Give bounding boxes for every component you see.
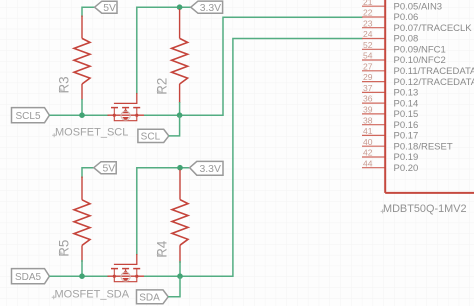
svg-text:SDA: SDA	[139, 292, 160, 303]
resistor R4	[172, 170, 188, 264]
wire 3.3V bottom rail to gate	[137, 168, 190, 255]
svg-text:R5: R5	[56, 240, 71, 257]
pin 21 P0.05/AIN3	[362, 0, 442, 12]
pin 42 P0.19	[362, 148, 418, 164]
svg-text:3.3V: 3.3V	[200, 3, 221, 14]
resistor R3	[74, 16, 90, 101]
svg-text:P0.05/AIN3: P0.05/AIN3	[394, 1, 443, 12]
net label SCL	[138, 129, 169, 142]
svg-text:27: 27	[363, 61, 373, 71]
svg-text:P0.15: P0.15	[394, 109, 419, 120]
net label SDA	[137, 290, 169, 304]
svg-text:37: 37	[363, 83, 373, 93]
svg-text:21: 21	[363, 0, 373, 7]
origin cross MDBT50Q	[381, 209, 385, 213]
pin 37 P0.13	[362, 83, 418, 99]
svg-text:P0.19: P0.19	[394, 152, 419, 163]
node junction 3.3V/R2	[177, 4, 183, 10]
svg-text:38: 38	[363, 115, 373, 125]
svg-text:23: 23	[363, 18, 373, 28]
svg-text:P0.09/NFC1: P0.09/NFC1	[394, 45, 446, 56]
wire MOSFET_SCL drain to junction and pin P0.06 riser	[144, 17, 363, 115]
wire R4 bottom to SDA junction	[179, 261, 181, 276]
wire R2 bottom to SCL junction	[179, 102, 181, 115]
wire MOSFET_SDA drain to junction and pin P0.08 riser	[144, 39, 363, 277]
svg-text:22: 22	[363, 8, 373, 18]
pin 39 P0.15	[362, 105, 418, 121]
pin 29 P0.12/TRACEDATA1	[362, 72, 474, 88]
svg-text:24: 24	[363, 29, 373, 39]
svg-text:P0.20: P0.20	[394, 163, 419, 174]
svg-text:SCL: SCL	[141, 131, 161, 142]
pin 24 P0.08	[362, 29, 418, 45]
wire SCL label to junction	[169, 115, 180, 136]
net label SCL5	[12, 108, 50, 123]
svg-text:P0.17: P0.17	[394, 131, 419, 142]
svg-text:39: 39	[363, 105, 373, 115]
svg-text:SDA5: SDA5	[15, 272, 42, 283]
svg-text:R4: R4	[155, 240, 170, 258]
svg-text:P0.06: P0.06	[394, 12, 419, 23]
wire 3.3V top rail to gate	[137, 7, 191, 94]
origin cross MOSFET_SCL	[52, 133, 56, 137]
origin cross MOSFET_SDA	[52, 295, 56, 299]
wire R3 bottom to SCL5 net	[81, 99, 83, 115]
svg-text:54: 54	[363, 51, 373, 61]
svg-text:P0.07/TRACECLK: P0.07/TRACECLK	[394, 23, 473, 34]
svg-text:3.3V: 3.3V	[200, 164, 221, 175]
pin 22 P0.06	[362, 8, 418, 24]
wire SDA label to junction	[168, 276, 180, 297]
svg-text:MDBT50Q-1MV2: MDBT50Q-1MV2	[383, 203, 467, 215]
origin cross R3	[59, 88, 63, 92]
pin 38 P0.16	[362, 115, 418, 131]
pin 44 P0.20	[362, 158, 418, 174]
node junction SDA	[177, 273, 183, 279]
svg-text:R2: R2	[155, 78, 170, 95]
svg-text:P0.14: P0.14	[394, 98, 419, 109]
wire 5V to R5 top	[82, 168, 94, 178]
pin 54 P0.10/NFC2	[362, 51, 446, 67]
transistor MOSFET_SDA	[108, 254, 145, 282]
supply flag 3.3V (top)	[191, 1, 223, 14]
svg-text:5V: 5V	[103, 3, 116, 14]
pin 23 P0.07/TRACECLK	[362, 18, 472, 34]
svg-text:P0.10/NFC2: P0.10/NFC2	[394, 55, 446, 66]
origin cross R4	[157, 253, 161, 257]
svg-text:SCL5: SCL5	[15, 111, 40, 122]
supply flag 5V (top)	[95, 1, 117, 14]
svg-text:36: 36	[363, 94, 373, 104]
wire SCL5 row	[49, 114, 108, 116]
origin cross R2	[157, 90, 161, 94]
svg-text:42: 42	[363, 148, 373, 158]
svg-text:44: 44	[363, 158, 373, 168]
svg-text:P0.18/RESET: P0.18/RESET	[394, 141, 453, 152]
wire 5V to R3 top	[82, 7, 95, 17]
supply flag 5V (bottom)	[94, 162, 116, 175]
pin 27 P0.11/TRACEDATA0	[362, 61, 474, 77]
svg-text:R3: R3	[56, 76, 71, 93]
svg-text:P0.13: P0.13	[394, 88, 419, 99]
svg-text:MOSFET_SCL: MOSFET_SCL	[55, 127, 128, 139]
transistor MOSFET_SCL	[108, 93, 145, 121]
svg-text:P0.12/TRACEDATA1: P0.12/TRACEDATA1	[394, 77, 474, 88]
pin 40 P0.18/RESET	[362, 137, 453, 153]
wire SDA5 row	[49, 275, 108, 277]
resistor R5	[74, 177, 90, 263]
pin 52 P0.09/NFC1	[362, 40, 446, 56]
pin 41 P0.17	[362, 126, 418, 142]
svg-text:P0.08: P0.08	[394, 34, 419, 45]
wire R5 bottom to SDA5 net	[81, 260, 83, 276]
op-amp U1 module MDBT50Q-1MV2 body edge	[385, 0, 474, 193]
resistor R2	[172, 9, 188, 103]
svg-text:52: 52	[363, 40, 373, 50]
pin 36 P0.14	[362, 94, 418, 110]
svg-text:P0.11/TRACEDATA0: P0.11/TRACEDATA0	[394, 66, 474, 77]
origin cross R5	[59, 251, 63, 255]
node junction R5/SDA5	[79, 273, 85, 279]
svg-text:5V: 5V	[102, 164, 115, 175]
svg-text:41: 41	[363, 126, 373, 136]
svg-text:29: 29	[363, 72, 373, 82]
node junction SCL	[177, 112, 183, 118]
node junction 3.3V/R4	[177, 165, 183, 171]
supply flag 3.3V (bottom)	[190, 161, 223, 175]
net label SDA5	[12, 269, 50, 284]
svg-text:MOSFET_SDA: MOSFET_SDA	[55, 289, 130, 301]
svg-text:40: 40	[363, 137, 373, 147]
svg-text:P0.16: P0.16	[394, 120, 419, 131]
node junction R3/SCL5	[79, 112, 85, 118]
